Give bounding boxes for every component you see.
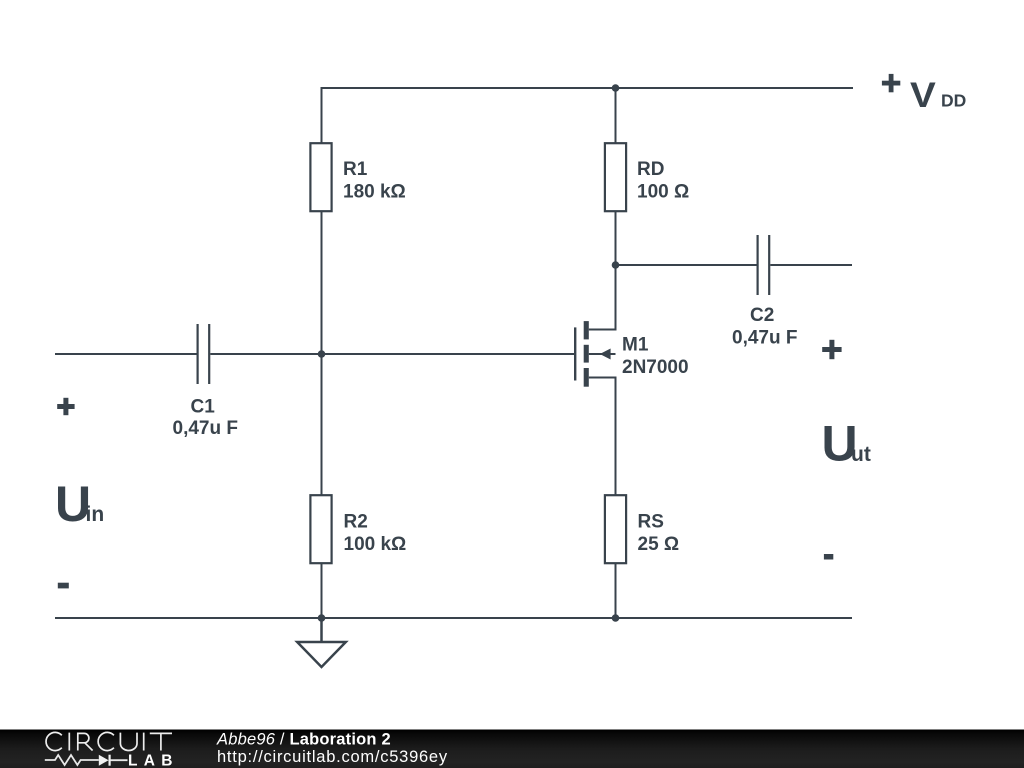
resistor R1 <box>310 143 331 211</box>
M1 gate bar <box>574 327 576 380</box>
capacitor C1 <box>198 324 210 384</box>
wire top rail VDD <box>322 88 854 143</box>
source label Uin plus terminal <box>57 398 74 415</box>
M1 source connection <box>589 378 616 496</box>
svg-text:RD: RD <box>637 159 664 180</box>
node at RS ground junction <box>612 614 620 622</box>
power label +VDD <box>882 74 966 115</box>
node at output / drain junction <box>612 261 620 269</box>
CircuitLab logo CIRCUIT wordmark <box>46 732 172 750</box>
node at RD top rail junction <box>612 84 620 92</box>
wire top rail right <box>322 87 854 89</box>
M1 channel bar top <box>584 321 589 339</box>
wire output node to C2 <box>616 264 757 266</box>
CircuitLab logo diode <box>99 755 128 766</box>
svg-text:in: in <box>86 503 105 526</box>
M1 channel bar bottom <box>584 368 589 387</box>
svg-text:LAB: LAB <box>128 753 179 768</box>
wire input left segment <box>55 353 197 355</box>
svg-text:http://circuitlab.com/c5396ey: http://circuitlab.com/c5396ey <box>217 748 448 766</box>
svg-text:2N7000: 2N7000 <box>622 357 689 378</box>
wire R2 bottom to ground rail <box>321 564 323 619</box>
CircuitLab logo waveform resistor <box>45 755 99 765</box>
svg-text:25 Ω: 25 Ω <box>638 534 680 555</box>
node at R2 ground junction <box>318 614 326 622</box>
wire C2 to output terminal <box>770 264 852 266</box>
output label Uut plus terminal <box>822 340 841 359</box>
resistor R2 <box>310 495 331 563</box>
svg-text:Abbe96 / Laboration 2: Abbe96 / Laboration 2 <box>216 731 391 749</box>
wire C1 to gate <box>210 353 574 355</box>
svg-text:100 Ω: 100 Ω <box>637 182 689 203</box>
M1 drain connection <box>589 265 616 330</box>
wire RD top <box>615 88 617 143</box>
transistor M1 2N7000 <box>575 265 615 495</box>
svg-text:R2: R2 <box>344 512 368 533</box>
svg-text:DD: DD <box>941 91 966 111</box>
svg-text:180 kΩ: 180 kΩ <box>343 182 406 203</box>
svg-text:R1: R1 <box>343 159 368 180</box>
svg-text:M1: M1 <box>622 335 649 356</box>
wire bottom rail <box>55 617 852 619</box>
resistor RD <box>605 143 626 211</box>
footer bar <box>0 730 1024 768</box>
svg-text:0,47u F: 0,47u F <box>732 328 797 349</box>
M1 body connection with arrow <box>589 353 616 355</box>
resistor RS <box>605 495 626 563</box>
wire RD bottom to output node <box>615 212 617 266</box>
source label Uin minus terminal <box>58 583 69 589</box>
svg-text:0,47u F: 0,47u F <box>173 418 238 439</box>
svg-text:V: V <box>910 75 936 115</box>
node at input / R1 R2 junction <box>318 350 326 358</box>
svg-text:ut: ut <box>851 443 871 466</box>
M1 channel bar middle <box>584 345 589 363</box>
svg-text:C2: C2 <box>750 305 774 326</box>
ground symbol <box>297 618 346 667</box>
svg-text:RS: RS <box>638 512 664 533</box>
svg-text:C1: C1 <box>191 397 216 418</box>
wire RS bottom to ground rail <box>615 564 617 619</box>
svg-text:100 kΩ: 100 kΩ <box>344 534 407 555</box>
wire R1 bottom to input node <box>321 212 323 355</box>
wire R2 top <box>321 354 323 495</box>
output label Uut minus terminal <box>824 554 833 560</box>
M1 body arrow <box>600 349 611 360</box>
capacitor C2 <box>758 235 770 295</box>
